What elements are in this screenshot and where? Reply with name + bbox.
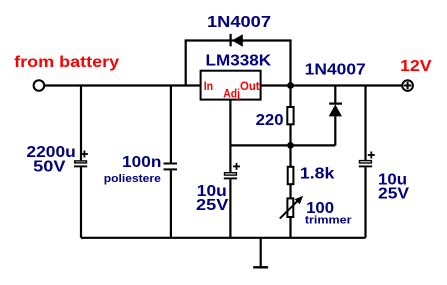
diode D1 1N4007 top [231,34,243,47]
wire bypass loop top horizontal [185,39,292,41]
capacitor C1 2200u 50V [74,86,88,238]
svg-text:Adj: Adj [223,86,240,100]
svg-text:50V: 50V [33,159,66,176]
wire Adj pin down [229,100,231,173]
node output junction dot [287,82,294,89]
svg-text:25V: 25V [196,197,229,214]
op-amp U1 LM338K regulator box [201,71,261,100]
svg-text:220: 220 [256,112,284,129]
capacitor C2 100n poliestere [164,86,178,238]
trimmer R3 100 [280,196,303,238]
capacitor C3 10u 25V (left) [224,163,240,238]
svg-text:from battery: from battery [14,54,119,71]
svg-text:1N4007: 1N4007 [305,62,366,79]
svg-text:100n: 100n [122,154,161,171]
wire bottom rail [81,237,366,239]
terminal 12V output [402,80,413,91]
svg-text:In: In [204,79,213,93]
diode D2 1N4007 vertical [329,86,342,146]
wire bypass loop left vertical [185,41,187,86]
svg-text:25V: 25V [378,186,409,203]
wire bypass loop right vertical [289,41,291,86]
resistor R1 220 [287,86,293,146]
wire Adj rail [230,144,335,146]
resistor R2 1.8k [288,145,294,198]
wire top rail left [44,84,200,86]
svg-text:1N4007: 1N4007 [207,14,271,31]
capacitor C4 10u 25V (right) [359,86,375,238]
wire top rail right [261,84,403,86]
svg-text:LM338K: LM338K [206,52,272,69]
svg-text:poliestere: poliestere [104,173,161,185]
node Adj junction dot [287,142,294,149]
svg-text:trimmer: trimmer [305,215,353,227]
svg-text:1.8k: 1.8k [300,165,335,182]
svg-text:Out: Out [240,79,260,93]
terminal battery input [34,80,45,91]
svg-text:12V: 12V [400,58,432,75]
ground [253,238,268,267]
